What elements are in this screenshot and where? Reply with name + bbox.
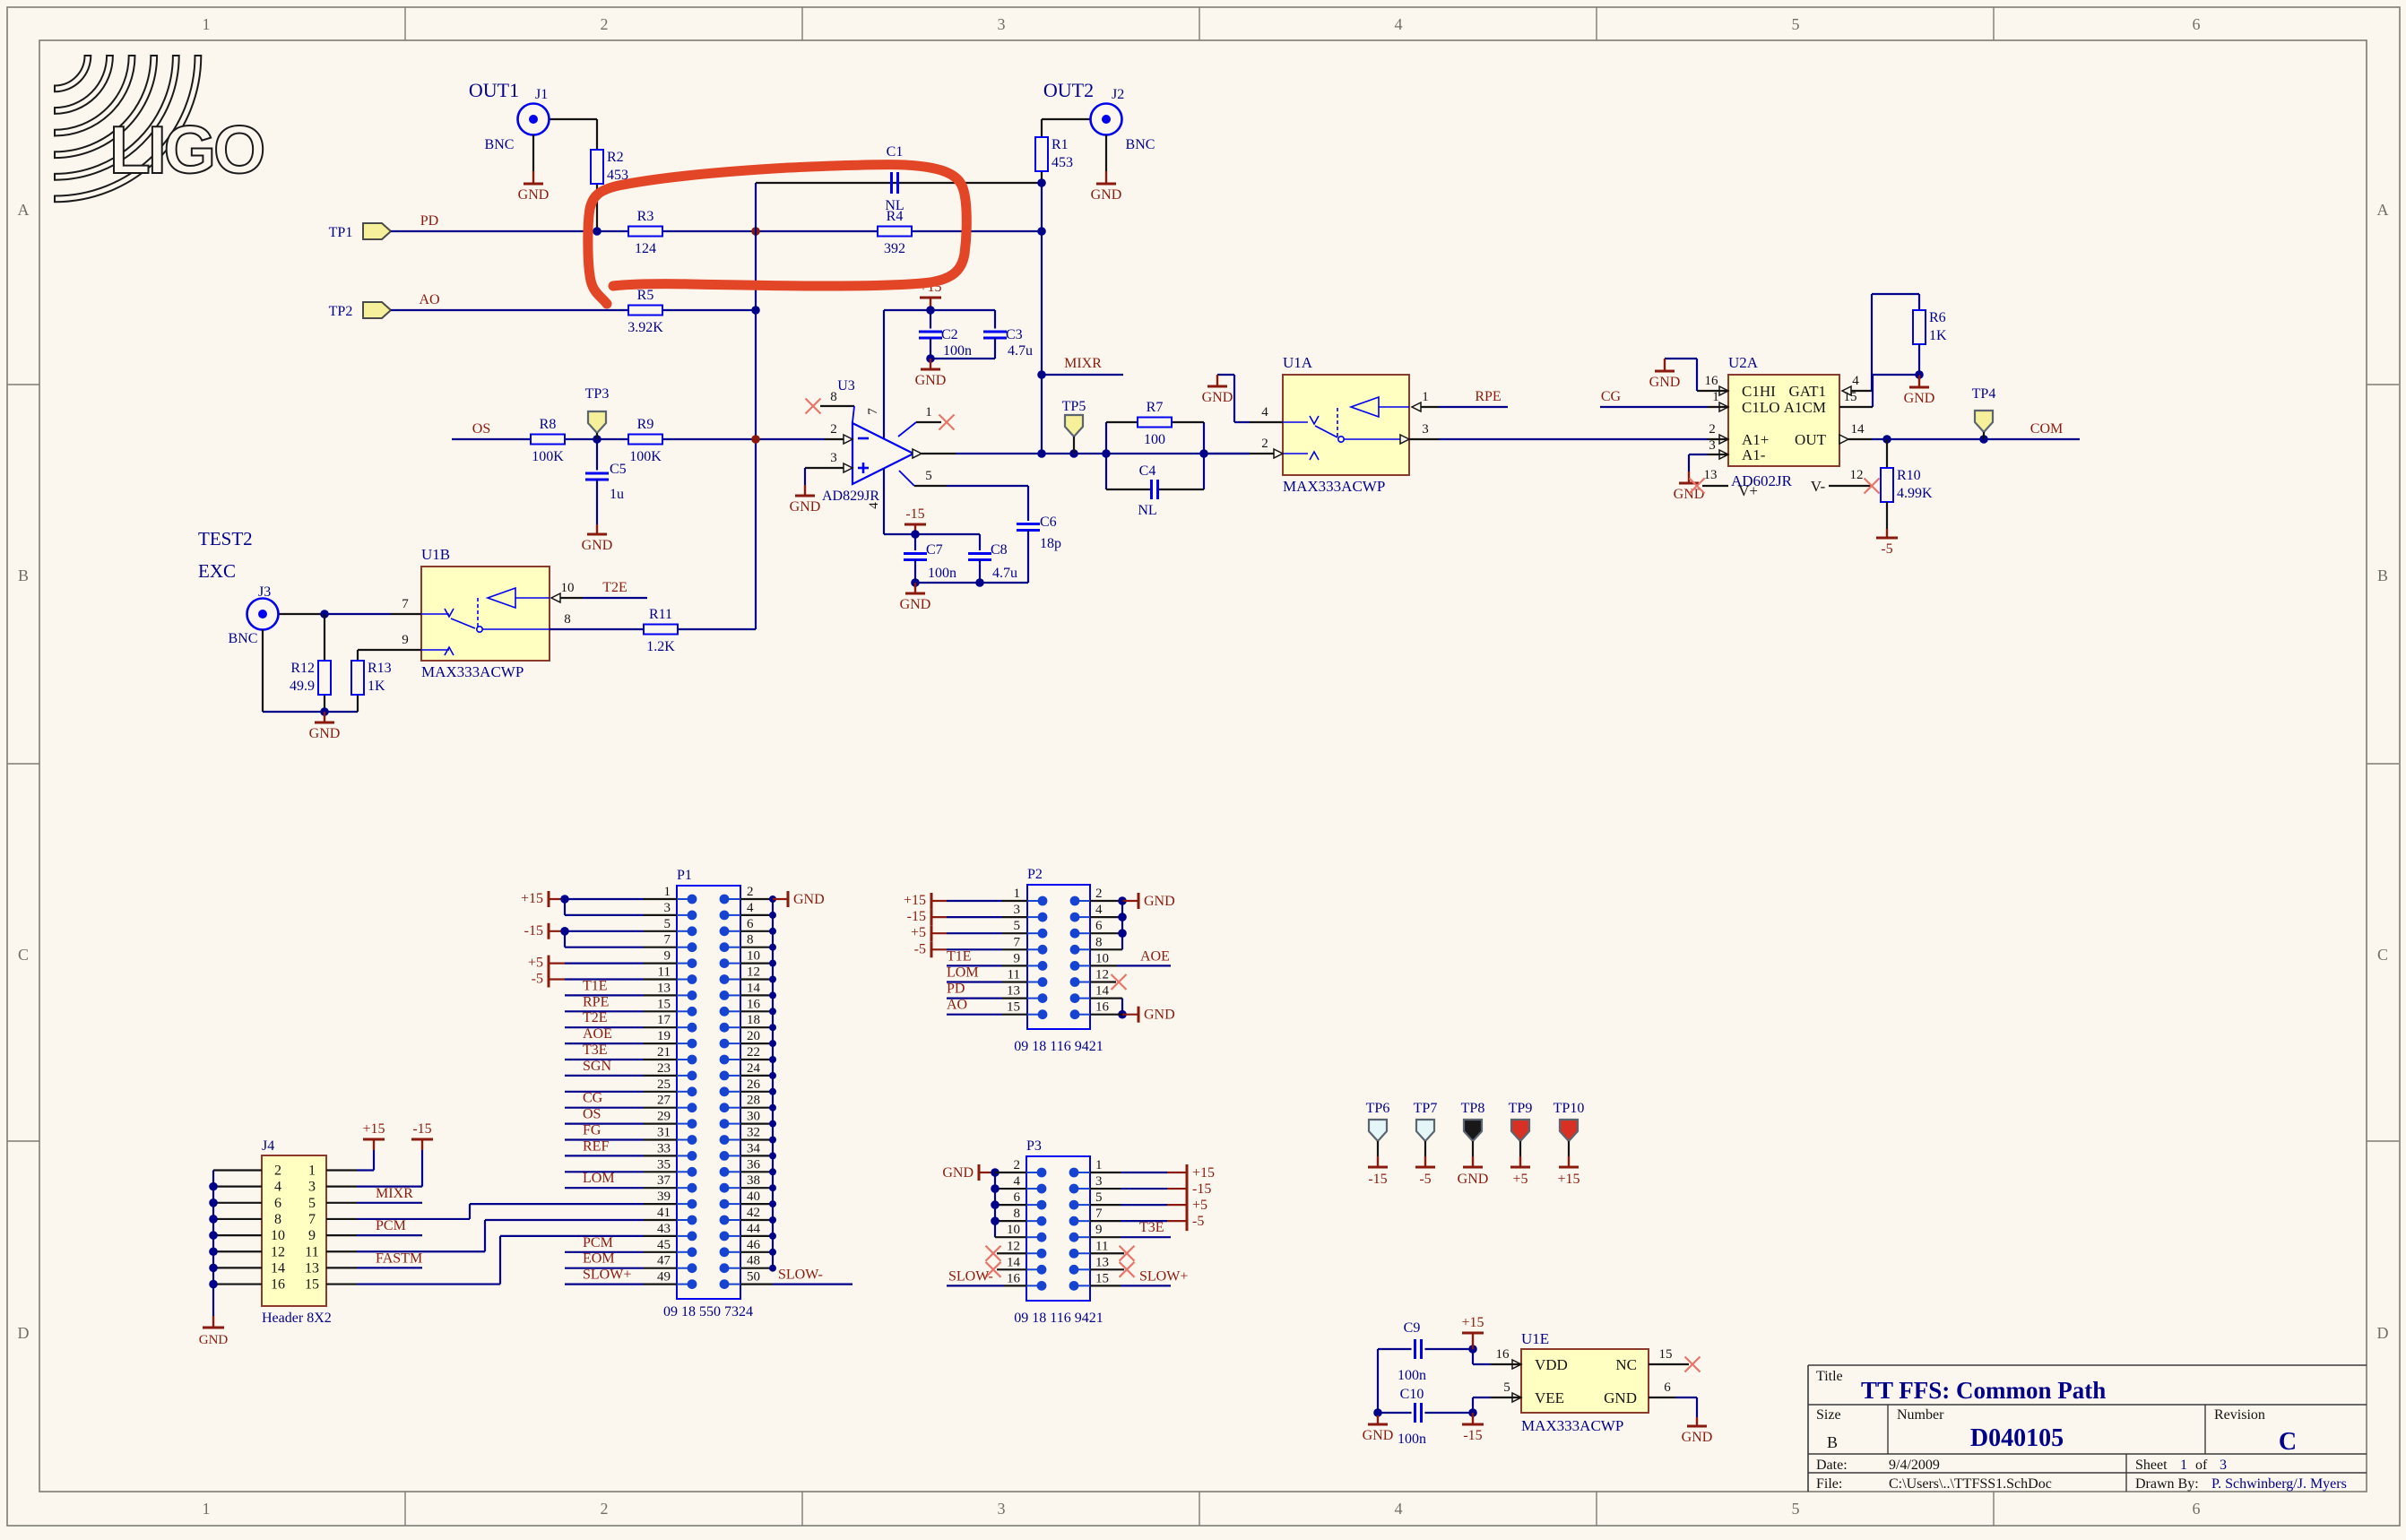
svg-text:+5: +5 bbox=[911, 925, 926, 940]
svg-text:13: 13 bbox=[657, 981, 671, 995]
svg-text:9: 9 bbox=[402, 633, 409, 647]
svg-text:46: 46 bbox=[747, 1238, 761, 1252]
svg-text:SGN: SGN bbox=[583, 1059, 611, 1074]
svg-text:C: C bbox=[18, 946, 29, 964]
svg-text:AO: AO bbox=[947, 998, 967, 1013]
svg-text:10: 10 bbox=[1007, 1223, 1020, 1237]
svg-text:1K: 1K bbox=[1929, 328, 1947, 343]
svg-text:12: 12 bbox=[1850, 468, 1864, 482]
svg-text:25: 25 bbox=[657, 1077, 671, 1092]
svg-text:5: 5 bbox=[1792, 15, 1800, 33]
svg-text:C10: C10 bbox=[1400, 1387, 1424, 1402]
svg-text:6: 6 bbox=[1095, 919, 1103, 933]
svg-text:100n: 100n bbox=[928, 566, 956, 581]
svg-text:BNC: BNC bbox=[1126, 137, 1155, 152]
svg-text:GND: GND bbox=[309, 726, 341, 741]
svg-text:TP5: TP5 bbox=[1062, 399, 1086, 414]
svg-text:RPE: RPE bbox=[1475, 389, 1501, 404]
svg-text:-15: -15 bbox=[412, 1121, 431, 1137]
svg-text:FG: FG bbox=[583, 1123, 601, 1138]
svg-text:453: 453 bbox=[1052, 155, 1073, 170]
svg-text:-15: -15 bbox=[1368, 1172, 1387, 1187]
svg-text:4.99K: 4.99K bbox=[1897, 486, 1933, 501]
svg-text:100n: 100n bbox=[1398, 1368, 1426, 1383]
svg-text:12: 12 bbox=[271, 1244, 285, 1259]
svg-text:16: 16 bbox=[1007, 1271, 1021, 1285]
svg-text:4: 4 bbox=[747, 901, 754, 915]
svg-text:2: 2 bbox=[830, 422, 837, 437]
svg-text:1K: 1K bbox=[368, 679, 385, 694]
svg-text:09 18 116 9421: 09 18 116 9421 bbox=[1014, 1039, 1103, 1054]
svg-text:1u: 1u bbox=[610, 487, 624, 502]
svg-text:39: 39 bbox=[657, 1190, 671, 1204]
svg-text:A1-: A1- bbox=[1742, 446, 1766, 463]
svg-text:GND: GND bbox=[915, 373, 947, 388]
svg-text:SLOW-: SLOW- bbox=[948, 1268, 993, 1284]
svg-text:15: 15 bbox=[305, 1277, 319, 1293]
svg-text:Number: Number bbox=[1897, 1407, 1944, 1423]
svg-text:C5: C5 bbox=[610, 462, 627, 477]
svg-text:14: 14 bbox=[747, 981, 761, 995]
svg-text:09 18 116 9421: 09 18 116 9421 bbox=[1014, 1311, 1103, 1326]
svg-text:R6: R6 bbox=[1929, 310, 1946, 325]
svg-text:36: 36 bbox=[747, 1157, 761, 1172]
svg-text:R3: R3 bbox=[637, 209, 654, 224]
svg-text:10: 10 bbox=[271, 1228, 285, 1243]
svg-text:50: 50 bbox=[747, 1270, 760, 1285]
svg-text:7: 7 bbox=[664, 933, 671, 947]
svg-text:100K: 100K bbox=[629, 449, 662, 464]
svg-text:-5: -5 bbox=[914, 941, 926, 956]
svg-text:6: 6 bbox=[2193, 1500, 2201, 1518]
svg-text:TP4: TP4 bbox=[1972, 386, 1996, 402]
svg-text:R2: R2 bbox=[607, 150, 624, 165]
svg-text:13: 13 bbox=[1704, 468, 1718, 482]
svg-text:16: 16 bbox=[271, 1277, 285, 1293]
svg-text:R11: R11 bbox=[649, 607, 672, 622]
svg-text:R13: R13 bbox=[368, 661, 392, 676]
svg-text:6: 6 bbox=[1014, 1190, 1021, 1205]
svg-text:P1: P1 bbox=[677, 868, 692, 883]
svg-text:45: 45 bbox=[657, 1238, 671, 1252]
svg-text:9: 9 bbox=[1014, 951, 1021, 965]
svg-text:49.9: 49.9 bbox=[290, 679, 315, 694]
svg-text:17: 17 bbox=[657, 1013, 671, 1027]
svg-text:U1E: U1E bbox=[1521, 1330, 1549, 1347]
svg-text:PCM: PCM bbox=[583, 1235, 613, 1250]
svg-text:OS: OS bbox=[583, 1107, 601, 1122]
svg-text:CG: CG bbox=[583, 1091, 603, 1106]
svg-text:Sheet: Sheet bbox=[2135, 1458, 2168, 1473]
svg-text:4.7u: 4.7u bbox=[1008, 343, 1033, 359]
svg-text:14: 14 bbox=[1095, 984, 1110, 999]
svg-text:SLOW-: SLOW- bbox=[778, 1267, 823, 1283]
svg-text:Revision: Revision bbox=[2214, 1407, 2265, 1423]
svg-text:5: 5 bbox=[1014, 919, 1021, 933]
svg-text:3: 3 bbox=[308, 1180, 316, 1195]
svg-text:23: 23 bbox=[657, 1061, 671, 1076]
svg-text:11: 11 bbox=[1095, 1239, 1108, 1253]
svg-text:GND: GND bbox=[582, 538, 613, 553]
svg-text:C1HI: C1HI bbox=[1742, 383, 1776, 400]
svg-text:GND: GND bbox=[199, 1333, 229, 1347]
svg-text:4: 4 bbox=[1395, 1500, 1403, 1518]
svg-text:VEE: VEE bbox=[1535, 1389, 1564, 1406]
svg-text:11: 11 bbox=[658, 965, 671, 980]
svg-text:C: C bbox=[2377, 946, 2388, 964]
svg-text:100n: 100n bbox=[943, 343, 972, 359]
svg-text:B: B bbox=[18, 567, 29, 584]
svg-text:3: 3 bbox=[1709, 438, 1716, 453]
svg-text:GND: GND bbox=[1091, 187, 1122, 203]
svg-text:16: 16 bbox=[1705, 374, 1719, 388]
svg-text:2: 2 bbox=[601, 15, 609, 33]
svg-text:12: 12 bbox=[1007, 1239, 1020, 1253]
svg-text:37: 37 bbox=[657, 1173, 671, 1188]
svg-text:8: 8 bbox=[830, 390, 837, 404]
svg-text:NL: NL bbox=[1138, 503, 1156, 518]
svg-text:+5: +5 bbox=[1192, 1198, 1207, 1213]
svg-text:GND: GND bbox=[1363, 1428, 1394, 1443]
svg-text:5: 5 bbox=[308, 1196, 316, 1211]
svg-text:AOE: AOE bbox=[583, 1026, 612, 1042]
svg-text:D: D bbox=[18, 1324, 30, 1342]
svg-text:BNC: BNC bbox=[485, 137, 515, 152]
svg-text:13: 13 bbox=[305, 1260, 319, 1276]
svg-text:GND: GND bbox=[793, 892, 825, 907]
svg-text:R8: R8 bbox=[540, 417, 557, 432]
svg-text:1: 1 bbox=[1095, 1158, 1103, 1172]
svg-text:-15: -15 bbox=[1463, 1428, 1482, 1443]
svg-text:19: 19 bbox=[657, 1029, 671, 1043]
svg-text:C8: C8 bbox=[991, 542, 1008, 558]
svg-text:31: 31 bbox=[657, 1126, 671, 1140]
svg-text:2: 2 bbox=[274, 1164, 281, 1179]
svg-text:P. Schwinberg/J. Myers: P. Schwinberg/J. Myers bbox=[2211, 1476, 2347, 1492]
svg-text:PCM: PCM bbox=[376, 1218, 406, 1233]
svg-text:OUT2: OUT2 bbox=[1043, 79, 1094, 101]
svg-text:100: 100 bbox=[1144, 432, 1165, 447]
svg-text:V+: V+ bbox=[1738, 482, 1758, 499]
svg-text:OS: OS bbox=[472, 421, 490, 437]
svg-text:392: 392 bbox=[884, 241, 905, 256]
svg-text:SLOW+: SLOW+ bbox=[583, 1267, 631, 1283]
svg-text:-5: -5 bbox=[532, 972, 543, 987]
svg-text:4: 4 bbox=[1395, 15, 1403, 33]
svg-text:CG: CG bbox=[1601, 389, 1622, 404]
svg-text:48: 48 bbox=[747, 1254, 760, 1268]
svg-text:3: 3 bbox=[830, 451, 837, 465]
svg-text:4.7u: 4.7u bbox=[992, 566, 1017, 581]
svg-text:SLOW+: SLOW+ bbox=[1139, 1268, 1188, 1284]
svg-text:U3: U3 bbox=[837, 378, 855, 394]
svg-text:5: 5 bbox=[925, 469, 932, 483]
svg-text:T3E: T3E bbox=[1139, 1220, 1164, 1235]
svg-text:TP9: TP9 bbox=[1509, 1101, 1533, 1116]
svg-text:P2: P2 bbox=[1027, 867, 1043, 882]
svg-text:3: 3 bbox=[998, 15, 1006, 33]
svg-text:TP8: TP8 bbox=[1461, 1101, 1485, 1116]
svg-text:C7: C7 bbox=[926, 542, 943, 558]
svg-text:29: 29 bbox=[657, 1110, 671, 1124]
svg-text:REF: REF bbox=[583, 1138, 609, 1154]
svg-text:10: 10 bbox=[1095, 951, 1109, 965]
svg-text:15: 15 bbox=[1844, 390, 1857, 404]
svg-text:U1A: U1A bbox=[1283, 354, 1313, 371]
svg-text:U1B: U1B bbox=[421, 546, 450, 563]
svg-text:47: 47 bbox=[657, 1254, 671, 1268]
svg-text:4: 4 bbox=[1014, 1174, 1021, 1189]
svg-text:D: D bbox=[2377, 1324, 2389, 1342]
svg-text:EOM: EOM bbox=[583, 1251, 615, 1267]
svg-text:RPE: RPE bbox=[583, 994, 609, 1009]
svg-text:NC: NC bbox=[1615, 1356, 1637, 1373]
svg-text:1: 1 bbox=[2180, 1458, 2187, 1473]
svg-text:3: 3 bbox=[1095, 1174, 1103, 1189]
svg-text:of: of bbox=[2195, 1458, 2208, 1473]
svg-text:21: 21 bbox=[657, 1045, 671, 1060]
svg-text:14: 14 bbox=[271, 1260, 285, 1276]
svg-text:8: 8 bbox=[747, 933, 754, 947]
svg-text:GND: GND bbox=[1649, 375, 1681, 390]
svg-text:VDD: VDD bbox=[1535, 1356, 1568, 1373]
svg-text:1.2K: 1.2K bbox=[646, 639, 675, 654]
svg-text:GND: GND bbox=[1604, 1389, 1637, 1406]
svg-text:TEST2: TEST2 bbox=[198, 528, 253, 549]
svg-text:2: 2 bbox=[1014, 1158, 1021, 1172]
svg-text:9: 9 bbox=[664, 949, 671, 964]
svg-text:2: 2 bbox=[747, 885, 754, 899]
svg-text:4: 4 bbox=[1852, 374, 1859, 388]
svg-text:12: 12 bbox=[1095, 968, 1109, 982]
svg-text:MIXR: MIXR bbox=[1064, 356, 1102, 371]
svg-text:43: 43 bbox=[657, 1222, 671, 1236]
svg-text:1: 1 bbox=[203, 15, 211, 33]
svg-text:6: 6 bbox=[747, 917, 754, 931]
svg-text:MAX333ACWP: MAX333ACWP bbox=[1283, 478, 1385, 495]
svg-text:100K: 100K bbox=[532, 449, 564, 464]
svg-text:PD: PD bbox=[420, 213, 438, 229]
svg-text:41: 41 bbox=[657, 1206, 671, 1220]
svg-text:A1CM: A1CM bbox=[1784, 399, 1826, 416]
svg-text:14: 14 bbox=[1007, 1255, 1021, 1269]
svg-text:40: 40 bbox=[747, 1190, 760, 1204]
svg-text:C: C bbox=[2279, 1428, 2297, 1456]
svg-text:2: 2 bbox=[1709, 422, 1716, 437]
svg-text:09 18 550 7324: 09 18 550 7324 bbox=[663, 1304, 753, 1319]
svg-text:+15: +15 bbox=[521, 891, 543, 906]
svg-text:+15: +15 bbox=[362, 1121, 385, 1137]
svg-text:5: 5 bbox=[1095, 1190, 1103, 1205]
svg-text:44: 44 bbox=[747, 1222, 761, 1236]
svg-text:GND: GND bbox=[1144, 1008, 1175, 1023]
svg-text:-15: -15 bbox=[907, 909, 926, 924]
svg-text:6: 6 bbox=[2193, 15, 2201, 33]
svg-text:30: 30 bbox=[747, 1110, 760, 1124]
svg-text:MIXR: MIXR bbox=[376, 1186, 413, 1201]
svg-text:-15: -15 bbox=[524, 923, 543, 939]
svg-text:16: 16 bbox=[747, 997, 761, 1011]
svg-text:C9: C9 bbox=[1404, 1320, 1421, 1336]
svg-text:A: A bbox=[2377, 201, 2389, 219]
svg-text:File:: File: bbox=[1816, 1476, 1842, 1492]
svg-text:R12: R12 bbox=[290, 661, 315, 676]
svg-text:-15: -15 bbox=[1192, 1181, 1211, 1197]
svg-text:22: 22 bbox=[747, 1045, 760, 1060]
svg-text:124: 124 bbox=[635, 241, 656, 256]
svg-text:GND: GND bbox=[1202, 390, 1233, 405]
svg-text:20: 20 bbox=[747, 1029, 760, 1043]
svg-text:7: 7 bbox=[308, 1212, 316, 1227]
svg-text:LOM: LOM bbox=[583, 1171, 615, 1186]
svg-text:10: 10 bbox=[561, 581, 575, 595]
svg-text:R5: R5 bbox=[637, 288, 654, 303]
svg-text:LIGO: LIGO bbox=[109, 112, 264, 187]
svg-text:6: 6 bbox=[1664, 1380, 1671, 1395]
svg-text:T2E: T2E bbox=[602, 580, 627, 595]
svg-text:+5: +5 bbox=[528, 956, 543, 971]
svg-text:Size: Size bbox=[1816, 1407, 1841, 1423]
svg-text:TP7: TP7 bbox=[1414, 1101, 1438, 1116]
svg-text:OUT1: OUT1 bbox=[469, 79, 519, 101]
svg-text:PD: PD bbox=[947, 982, 965, 997]
svg-text:J4: J4 bbox=[262, 1138, 274, 1154]
svg-text:R10: R10 bbox=[1897, 468, 1921, 483]
svg-text:4: 4 bbox=[274, 1180, 281, 1195]
svg-text:3.92K: 3.92K bbox=[627, 320, 663, 335]
svg-text:2: 2 bbox=[1095, 887, 1103, 901]
svg-text:42: 42 bbox=[747, 1206, 760, 1220]
svg-text:C6: C6 bbox=[1040, 515, 1057, 530]
svg-text:GAT1: GAT1 bbox=[1788, 383, 1826, 400]
svg-text:14: 14 bbox=[1851, 422, 1865, 437]
svg-text:C:\Users\..\TTFSS1.SchDoc: C:\Users\..\TTFSS1.SchDoc bbox=[1889, 1476, 2052, 1492]
svg-text:U2A: U2A bbox=[1728, 354, 1759, 371]
svg-text:+15: +15 bbox=[904, 893, 926, 908]
svg-text:C2: C2 bbox=[941, 327, 958, 342]
svg-text:Drawn By:: Drawn By: bbox=[2135, 1476, 2199, 1492]
svg-text:15: 15 bbox=[1095, 1271, 1109, 1285]
svg-text:32: 32 bbox=[747, 1126, 760, 1140]
svg-text:16: 16 bbox=[1095, 1000, 1110, 1015]
svg-text:7: 7 bbox=[1014, 935, 1021, 949]
svg-text:OUT: OUT bbox=[1795, 431, 1827, 448]
svg-text:33: 33 bbox=[657, 1141, 671, 1155]
svg-text:GND: GND bbox=[1458, 1172, 1489, 1187]
svg-text:MAX333ACWP: MAX333ACWP bbox=[1521, 1417, 1623, 1434]
svg-text:9: 9 bbox=[308, 1228, 316, 1243]
svg-text:J2: J2 bbox=[1112, 87, 1124, 102]
svg-text:8: 8 bbox=[1095, 935, 1103, 949]
svg-text:27: 27 bbox=[657, 1094, 671, 1108]
svg-text:+15: +15 bbox=[1461, 1315, 1484, 1330]
svg-text:FASTM: FASTM bbox=[376, 1250, 422, 1266]
svg-text:EXC: EXC bbox=[198, 560, 236, 582]
svg-text:7: 7 bbox=[866, 408, 880, 415]
svg-text:B: B bbox=[2377, 567, 2388, 584]
svg-text:A: A bbox=[18, 201, 30, 219]
svg-text:AOE: AOE bbox=[1140, 948, 1170, 964]
svg-text:11: 11 bbox=[305, 1244, 318, 1259]
svg-text:TP2: TP2 bbox=[329, 304, 353, 319]
svg-text:16: 16 bbox=[1496, 1347, 1510, 1362]
svg-text:1: 1 bbox=[1712, 390, 1719, 404]
svg-text:C1: C1 bbox=[887, 144, 904, 160]
svg-text:3: 3 bbox=[2220, 1458, 2227, 1473]
svg-text:8: 8 bbox=[274, 1212, 281, 1227]
svg-text:NL: NL bbox=[885, 198, 904, 213]
svg-text:C1LO: C1LO bbox=[1742, 399, 1780, 416]
svg-text:T1E: T1E bbox=[947, 948, 972, 964]
svg-text:100n: 100n bbox=[1398, 1432, 1426, 1447]
svg-text:-15: -15 bbox=[905, 506, 924, 522]
svg-text:7: 7 bbox=[1095, 1207, 1103, 1221]
svg-text:TT FFS: Common Path: TT FFS: Common Path bbox=[1861, 1377, 2106, 1404]
svg-text:7: 7 bbox=[402, 597, 409, 611]
svg-text:D040105: D040105 bbox=[1970, 1424, 2064, 1452]
svg-text:R9: R9 bbox=[637, 417, 654, 432]
svg-text:13: 13 bbox=[1007, 984, 1020, 999]
svg-text:R1: R1 bbox=[1052, 137, 1069, 152]
svg-text:C4: C4 bbox=[1139, 463, 1156, 479]
svg-text:1: 1 bbox=[1014, 887, 1021, 901]
svg-text:Title: Title bbox=[1816, 1369, 1843, 1384]
svg-text:1: 1 bbox=[203, 1500, 211, 1518]
svg-text:5: 5 bbox=[1792, 1500, 1800, 1518]
svg-text:Date:: Date: bbox=[1816, 1458, 1848, 1473]
svg-text:38: 38 bbox=[747, 1173, 760, 1188]
svg-text:9: 9 bbox=[1095, 1223, 1103, 1237]
svg-text:12: 12 bbox=[747, 965, 760, 980]
svg-text:+15: +15 bbox=[1557, 1172, 1579, 1187]
svg-text:TP3: TP3 bbox=[585, 386, 610, 402]
svg-text:15: 15 bbox=[1007, 1000, 1020, 1015]
svg-text:24: 24 bbox=[747, 1061, 761, 1076]
svg-text:34: 34 bbox=[747, 1141, 761, 1155]
svg-text:8: 8 bbox=[564, 612, 571, 627]
svg-text:T3E: T3E bbox=[583, 1043, 608, 1058]
svg-text:P3: P3 bbox=[1026, 1138, 1042, 1154]
svg-text:3: 3 bbox=[664, 901, 671, 915]
svg-text:+5: +5 bbox=[1512, 1172, 1528, 1187]
svg-text:-5: -5 bbox=[1192, 1214, 1204, 1229]
svg-text:GND: GND bbox=[1682, 1430, 1713, 1445]
svg-text:49: 49 bbox=[657, 1270, 671, 1285]
svg-text:T1E: T1E bbox=[583, 978, 608, 993]
svg-text:GND: GND bbox=[518, 187, 550, 203]
svg-text:1: 1 bbox=[308, 1164, 316, 1179]
svg-text:TP6: TP6 bbox=[1366, 1101, 1390, 1116]
svg-text:MAX333ACWP: MAX333ACWP bbox=[421, 663, 524, 680]
svg-text:28: 28 bbox=[747, 1094, 760, 1108]
svg-text:13: 13 bbox=[1095, 1255, 1109, 1269]
svg-text:B: B bbox=[1827, 1433, 1838, 1451]
svg-text:GND: GND bbox=[942, 1165, 974, 1181]
svg-text:BNC: BNC bbox=[229, 631, 258, 646]
svg-text:V-: V- bbox=[1811, 478, 1826, 495]
svg-text:2: 2 bbox=[601, 1500, 609, 1518]
svg-text:+15: +15 bbox=[1192, 1165, 1215, 1181]
svg-text:GND: GND bbox=[790, 499, 821, 515]
svg-text:AO: AO bbox=[419, 292, 439, 307]
svg-text:11: 11 bbox=[1008, 968, 1020, 982]
svg-text:GND: GND bbox=[1904, 391, 1935, 406]
svg-text:LOM: LOM bbox=[947, 965, 979, 981]
svg-text:18: 18 bbox=[747, 1013, 760, 1027]
svg-text:35: 35 bbox=[657, 1157, 671, 1172]
svg-text:5: 5 bbox=[1503, 1380, 1510, 1395]
svg-text:1: 1 bbox=[925, 405, 932, 420]
